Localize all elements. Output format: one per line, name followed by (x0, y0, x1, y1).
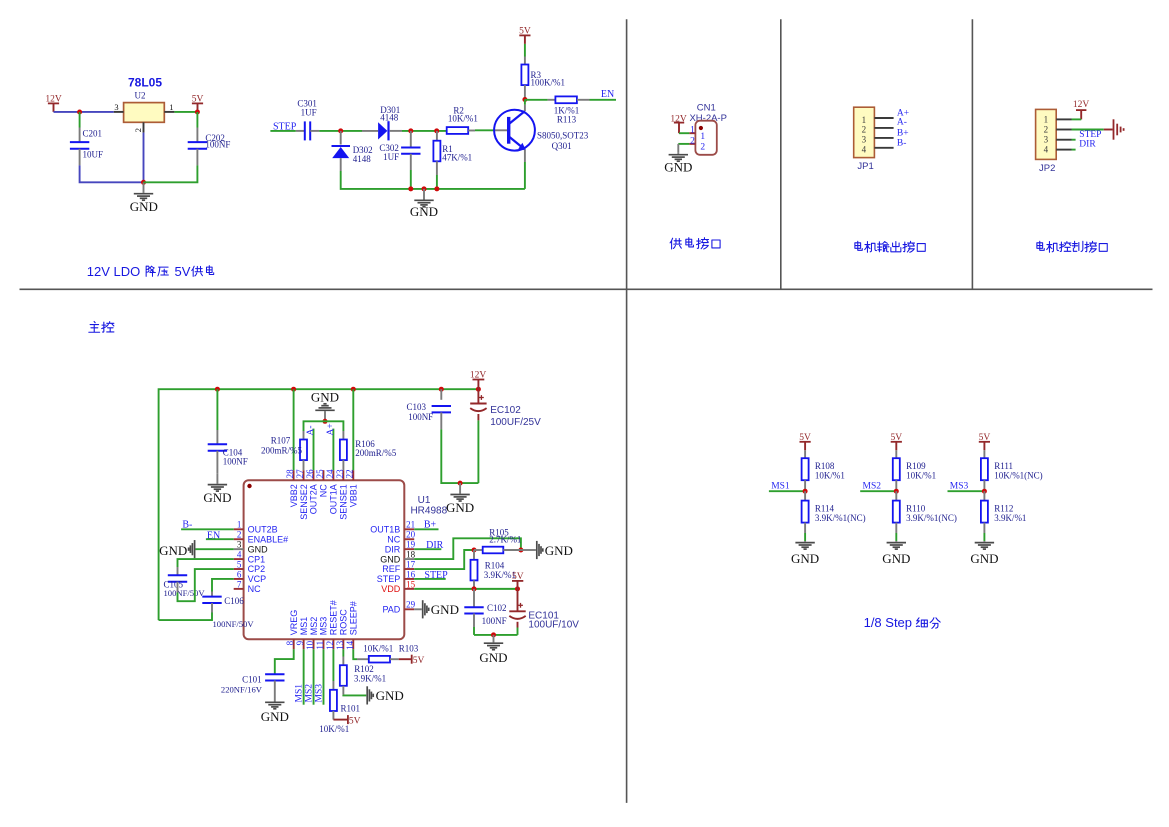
capacitor C104 (208, 443, 227, 445)
svg-text:NC: NC (319, 484, 329, 497)
svg-text:4148: 4148 (353, 154, 372, 164)
svg-text:C201: C201 (83, 128, 103, 138)
wire CN1 pin1 to 12V (679, 132, 689, 134)
svg-text:6: 6 (237, 569, 242, 579)
wire pin18 GND elbow (414, 538, 521, 559)
svg-text:JP1: JP1 (857, 161, 873, 172)
C101 bottom pin (274, 681, 276, 693)
wire 12V to U2 pin3 (54, 111, 114, 113)
svg-text:5V: 5V (890, 433, 902, 443)
svg-text:GND: GND (431, 602, 459, 617)
connector JP1 body (854, 107, 875, 157)
svg-text:26: 26 (305, 469, 315, 479)
svg-text:12V: 12V (1073, 100, 1090, 110)
svg-text:RESET#: RESET# (329, 600, 339, 635)
IC U1 body (244, 480, 405, 639)
JP1 pin 4 (874, 147, 893, 149)
wire U2 pin2 down (143, 133, 145, 183)
svg-text:DIR: DIR (385, 544, 401, 554)
svg-text:14: 14 (345, 640, 355, 650)
wire C106 to rail (159, 613, 212, 621)
ground GND R102 (right) (366, 686, 368, 704)
U1 pin 13 (342, 639, 344, 649)
CN1 pin 2 (689, 143, 695, 145)
svg-text:R102: R102 (354, 664, 374, 674)
svg-text:100UF/10V: 100UF/10V (528, 620, 579, 631)
power flag 5V MS1 (804, 442, 806, 451)
C105 bottom pin (177, 582, 179, 593)
junction VDD 5V (515, 586, 520, 591)
svg-text:100K/%1: 100K/%1 (531, 78, 566, 88)
U1 pin 8 (293, 639, 295, 649)
capacitor C201 (70, 141, 89, 143)
svg-text:100NF/50V: 100NF/50V (164, 588, 206, 598)
svg-text:100NF: 100NF (408, 412, 433, 422)
svg-text:STEP: STEP (377, 574, 401, 584)
wire pin15 VDD (414, 588, 517, 590)
wire pin14 SLEEP# to R103 (353, 649, 357, 659)
svg-text:C101: C101 (242, 674, 262, 684)
wire pin29 PAD to GND (414, 608, 422, 610)
U1 pin 5 (234, 568, 244, 570)
svg-text:GND: GND (410, 204, 438, 219)
junction gnd rail R1 (434, 186, 439, 191)
wire collector node to R113 (525, 99, 548, 101)
svg-text:1UF: 1UF (301, 107, 317, 117)
svg-text:MS1: MS1 (771, 482, 790, 492)
C301 right pin (310, 130, 319, 132)
wire pin9 MS1 (303, 649, 305, 704)
R108 top pin (804, 450, 806, 458)
junction rail 12V (476, 387, 481, 392)
svg-text:GND: GND (446, 500, 474, 515)
svg-text:B+: B+ (897, 129, 909, 139)
svg-text:MS3: MS3 (319, 617, 329, 636)
power flag 5V R101 (333, 719, 348, 721)
svg-text:5V: 5V (349, 717, 361, 727)
U1 pin 27 (303, 470, 305, 480)
wire junction to C201 (79, 112, 81, 128)
svg-text:3: 3 (1044, 135, 1049, 145)
U1 pin 21 (404, 528, 414, 530)
wire EC102 to gnd rail (477, 420, 479, 483)
R101 top pin (332, 681, 334, 690)
C103 bottom pin (440, 412, 442, 429)
svg-text:4148: 4148 (380, 112, 399, 122)
svg-text:2: 2 (1044, 125, 1049, 135)
svg-text:SENSE2: SENSE2 (299, 484, 309, 520)
svg-text:R107: R107 (271, 436, 291, 446)
R104 top pin (473, 550, 475, 560)
earth GND JP2 (1104, 129, 1113, 131)
wire pin8 VREG to C101 (275, 649, 294, 674)
R113 right pin (577, 99, 590, 101)
wire C103 to gnd rail (441, 429, 478, 483)
wire C301 to D301 (319, 130, 362, 132)
svg-text:REF: REF (382, 564, 401, 574)
junction GND node (141, 180, 146, 185)
R3 bottom pin (524, 85, 526, 97)
R114 top pin (804, 491, 806, 500)
svg-text:VBB2: VBB2 (289, 484, 299, 507)
C102 top pin (473, 589, 475, 607)
C202 bottom pin (196, 149, 198, 166)
junction rail VBB1 (351, 387, 356, 392)
ground GND C104 (216, 473, 218, 484)
svg-text:STEP: STEP (1079, 130, 1101, 140)
svg-text:3.9K/%1(NC): 3.9K/%1(NC) (815, 513, 866, 523)
connector JP2 body (1036, 109, 1057, 159)
junction MS3 (982, 489, 987, 494)
svg-text:10UF: 10UF (83, 149, 104, 159)
svg-text:2: 2 (237, 530, 242, 540)
wire pin19 DIR (414, 548, 441, 550)
U1 pin 20 (404, 538, 414, 540)
ground GND U2 (143, 182, 145, 193)
junction 5V C202 (195, 110, 200, 115)
capacitor C302 (401, 147, 420, 149)
svg-text:5V: 5V (175, 264, 191, 279)
Q301 emitter pin (524, 150, 526, 162)
U1 pin 1 (234, 528, 244, 530)
svg-text:15: 15 (406, 579, 416, 589)
wire STEP in (270, 130, 295, 132)
svg-text:A-: A- (306, 425, 316, 435)
svg-text:78L05: 78L05 (128, 75, 162, 89)
wire C102 to gnd (473, 627, 475, 635)
svg-text:JP2: JP2 (1039, 163, 1055, 174)
svg-text:21: 21 (406, 520, 415, 530)
svg-text:C106: C106 (224, 596, 244, 606)
R107 bottom pin (303, 460, 305, 470)
svg-text:MS2: MS2 (863, 482, 882, 492)
JP1 pin 1 (874, 117, 893, 119)
junction R104 top (472, 548, 477, 553)
svg-text:GND: GND (882, 551, 910, 566)
R101 bottom pin (332, 711, 334, 720)
R105 left pin (474, 549, 483, 551)
EC101 top pin (517, 589, 519, 611)
ground GND PAD (right) (422, 600, 424, 618)
resistor R107 (300, 440, 307, 461)
wire 12V rail (159, 389, 479, 620)
ground GND MS3 (983, 540, 985, 543)
wire EC101 to gnd (517, 628, 519, 635)
capacitor C301 (304, 121, 306, 140)
wire R2 to Q301 base (475, 129, 495, 131)
JP2 pin 2 (1056, 129, 1071, 131)
wire pin4 CP1 to C105 (178, 559, 234, 567)
junction gnd rail C302 (408, 186, 413, 191)
svg-text:NC: NC (248, 584, 261, 594)
svg-text:28: 28 (285, 469, 295, 479)
svg-text:C102: C102 (487, 603, 507, 613)
wire R114 to gnd (804, 533, 806, 541)
wire R113 to EN (590, 99, 617, 101)
svg-text:OUT1B: OUT1B (370, 525, 400, 535)
junction rail C103 (439, 387, 444, 392)
svg-text:1: 1 (169, 102, 173, 112)
svg-text:OUT1A: OUT1A (329, 484, 339, 514)
resistor R111 (981, 458, 988, 480)
resistor R112 (981, 501, 988, 523)
svg-text:3: 3 (862, 135, 867, 145)
svg-text:EN: EN (601, 89, 614, 100)
power flag 5V output (197, 103, 199, 112)
D301 left pin (362, 130, 378, 132)
resistor R114 (802, 501, 809, 523)
wire gnd rail right (474, 634, 518, 636)
wire R102 to GND (343, 694, 366, 697)
svg-text:1: 1 (1044, 114, 1049, 124)
U1 pin 28 (293, 470, 295, 480)
wire sense bracket (304, 421, 344, 431)
IC U1 pin1 marker dot (247, 484, 251, 488)
wire R3 to collector node (524, 97, 526, 100)
resistor R104 (471, 560, 478, 581)
wire pin13 ROSC to R102 (342, 649, 344, 656)
svg-text:VDD: VDD (381, 584, 401, 594)
resistor R3 (521, 65, 528, 86)
D302 bottom pin (340, 158, 342, 171)
C301 left pin (296, 130, 305, 132)
R2 right pin (468, 130, 475, 132)
svg-text:VCP: VCP (248, 574, 267, 584)
resistor R109 (893, 458, 900, 480)
R110 top pin (895, 491, 897, 500)
svg-text:4: 4 (862, 145, 867, 155)
svg-text:NC: NC (387, 534, 400, 544)
svg-text:13: 13 (335, 640, 345, 650)
svg-text:B-: B- (897, 139, 907, 149)
ground GND right (493, 635, 495, 643)
caption motor output connector (855, 241, 925, 252)
R3 top pin (524, 57, 526, 65)
svg-text:100NF/50V: 100NF/50V (213, 619, 255, 629)
R103 right pin (390, 658, 399, 660)
svg-text:ROSC: ROSC (339, 609, 349, 636)
svg-text:GND: GND (248, 544, 269, 554)
svg-text:1/8 Step: 1/8 Step (864, 615, 912, 630)
svg-text:GND: GND (261, 709, 289, 724)
R1 bottom pin (436, 161, 438, 175)
wire pin5 CP2 to C105 (178, 569, 234, 601)
svg-text:GND: GND (545, 543, 573, 558)
svg-text:1: 1 (237, 520, 242, 530)
wire net MS3 (948, 490, 985, 492)
diode D302 (332, 145, 351, 147)
svg-text:3: 3 (237, 540, 242, 550)
svg-text:3.9K/%1: 3.9K/%1 (354, 674, 386, 684)
svg-text:11: 11 (315, 641, 325, 650)
caption power connector (670, 238, 720, 249)
D301 right pin (390, 130, 402, 132)
svg-text:Q301: Q301 (552, 141, 572, 151)
svg-text:2: 2 (700, 143, 705, 153)
R112 top pin (983, 491, 985, 500)
svg-text:MS3: MS3 (314, 684, 324, 703)
caption motor control connector (1037, 241, 1107, 252)
JP2 pin 3 (1056, 139, 1071, 141)
C106 bottom pin (211, 603, 213, 613)
ground GND main top (459, 483, 461, 494)
svg-text:18: 18 (406, 549, 416, 559)
resistor R101 (330, 690, 337, 711)
U1 pin 14 (352, 639, 354, 649)
svg-text:4: 4 (237, 549, 242, 559)
wire C202 to GND rail (144, 165, 198, 182)
junction R105 right (518, 548, 523, 553)
wire pin21 B+ (414, 528, 438, 530)
svg-text:23: 23 (335, 469, 345, 479)
C102 bottom pin (473, 614, 475, 628)
svg-text:SENSE1: SENSE1 (339, 484, 349, 520)
U1 pin 11 (322, 639, 324, 649)
svg-text:EC102: EC102 (490, 405, 521, 416)
ground GND MS1 (804, 540, 806, 543)
svg-text:MS1: MS1 (295, 684, 305, 703)
svg-text:2: 2 (690, 136, 695, 146)
resistor R110 (893, 501, 900, 523)
junction rail VBB2 (291, 387, 296, 392)
svg-text:2.7K/%1: 2.7K/%1 (489, 535, 521, 545)
svg-text:1: 1 (700, 132, 705, 142)
R114 bottom pin (804, 523, 806, 533)
ground GND R105 (right) (536, 541, 538, 559)
ground GND MS2 (895, 540, 897, 543)
divider frame vertical 3 (971, 19, 973, 289)
R104 bottom pin (473, 580, 475, 588)
svg-text:HR4988: HR4988 (410, 506, 447, 517)
U2 pin 1 (164, 111, 174, 113)
svg-text:GND: GND (311, 390, 339, 405)
svg-text:3: 3 (114, 102, 118, 112)
svg-text:5V: 5V (519, 26, 531, 36)
U1 pin 7 (234, 588, 244, 590)
U1 pin 18 (404, 558, 414, 560)
wire pin12 RESET# to R101 (332, 649, 334, 681)
junction collector node (522, 97, 527, 102)
svg-text:A+: A+ (326, 423, 336, 435)
R113 left pin (548, 99, 556, 101)
svg-text:U1: U1 (418, 495, 431, 506)
svg-text:12V: 12V (45, 94, 62, 104)
capacitor C103 (432, 405, 451, 407)
svg-text:24: 24 (325, 469, 335, 479)
svg-text:7: 7 (237, 579, 242, 589)
svg-text:GND: GND (970, 551, 998, 566)
svg-text:GND: GND (380, 554, 401, 564)
svg-text:8: 8 (285, 640, 295, 645)
transistor Q301 (494, 110, 535, 151)
Q301 collector pin (524, 105, 526, 111)
R102 bottom pin (342, 686, 344, 695)
U2 pin 3 (114, 111, 124, 113)
junction C302 node (408, 128, 413, 133)
resistor R108 (802, 458, 809, 480)
svg-text:ENABLE#: ENABLE# (248, 534, 289, 544)
U1 pin 15 (404, 588, 414, 590)
U1 pin 19 (404, 548, 414, 550)
R112 bottom pin (983, 523, 985, 533)
svg-text:PAD: PAD (382, 605, 400, 615)
wire pin17 REF elbow (414, 550, 474, 569)
wire CN1 pin2 to GND (678, 143, 689, 145)
svg-text:100NF: 100NF (223, 457, 248, 467)
CN1 pin1 marker dot (699, 126, 703, 130)
caption master control (89, 321, 114, 332)
svg-text:GND: GND (664, 160, 692, 175)
R1 top pin (436, 131, 438, 141)
svg-text:MS2: MS2 (305, 684, 315, 703)
wire collector node down (524, 100, 526, 105)
wire EN to pin2 (206, 538, 234, 540)
power flag 12V input (53, 103, 55, 112)
diode D301 (378, 122, 387, 139)
CN1 pin 1 (689, 132, 695, 134)
wire U2 pin1 to 5V (174, 111, 197, 113)
svg-text:5V: 5V (799, 433, 811, 443)
R111 bottom pin (983, 480, 985, 491)
wire JP2 pin1 to 12V (1072, 118, 1082, 120)
R110 bottom pin (895, 523, 897, 533)
junction sense gnd (323, 419, 328, 424)
junction MS2 (894, 489, 899, 494)
svg-text:100NF: 100NF (205, 139, 230, 149)
wire rail to C103 (440, 389, 442, 400)
capacitor C101 (265, 673, 284, 675)
divider frame vertical 2 (780, 19, 782, 289)
divider frame horizontal (20, 288, 1153, 290)
svg-text:MS1: MS1 (299, 617, 309, 636)
svg-text:5V: 5V (413, 656, 425, 666)
capacitor EC101 (polarized) (509, 610, 525, 612)
svg-text:25: 25 (315, 469, 325, 479)
power flag 5V MS2 (895, 442, 897, 451)
wire JP2 pin2 STEP (1072, 129, 1104, 131)
JP2 pin 4 (1056, 149, 1071, 151)
R106 bottom pin (342, 460, 344, 470)
R106 top pin (342, 431, 344, 440)
U1 pin 9 (303, 639, 305, 649)
svg-text:10K/%1: 10K/%1 (448, 113, 478, 123)
junction gnd rail right (491, 632, 496, 637)
power flag 5V MS3 (983, 442, 985, 451)
junction D302 node (338, 128, 343, 133)
U1 pin 25 (322, 470, 324, 480)
junction 12V C201 (77, 110, 82, 115)
svg-text:R103: R103 (399, 643, 419, 653)
U1 pin 22 (352, 470, 354, 480)
JP1 pin 2 (874, 127, 893, 129)
C202 top pin (196, 128, 198, 143)
svg-text:10K/%1: 10K/%1 (815, 470, 845, 480)
JP1 pin 3 (874, 137, 893, 139)
svg-text:GND: GND (130, 199, 158, 214)
Q301 base pin (495, 129, 508, 131)
svg-text:10K/%1: 10K/%1 (363, 643, 393, 653)
svg-text:R113: R113 (557, 114, 577, 124)
ground GND C101 (274, 692, 276, 702)
U1 pin 17 (404, 568, 414, 570)
svg-text:VBB1: VBB1 (349, 484, 359, 507)
capacitor C105 (168, 574, 187, 576)
resistor R1 (433, 141, 440, 162)
wire R110 to gnd (895, 533, 897, 541)
wire rail to C104 (216, 389, 218, 430)
R105 right pin (503, 549, 521, 551)
R109 top pin (895, 450, 897, 458)
